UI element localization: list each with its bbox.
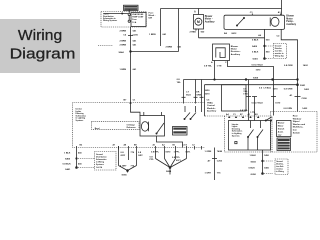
svg-text:1650: 1650 [205, 90, 211, 92]
pin B wire [195, 28, 265, 37]
svg-text:Reference: Reference [127, 127, 136, 129]
svg-text:Window: Window [293, 118, 302, 120]
svg-text:Switch: Switch [278, 127, 285, 130]
svg-text:G200: G200 [251, 174, 257, 176]
svg-text:0.8 YEL: 0.8 YEL [240, 110, 249, 112]
pump motor symbol [270, 17, 279, 26]
label blower motor auxiliary [205, 16, 215, 24]
module dashed box [73, 103, 205, 148]
svg-text:S304: S304 [251, 160, 257, 163]
wire: pump C2 to orange bus [281, 29, 297, 111]
svg-text:Rear: Rear [293, 116, 298, 118]
pin ticks C1 A1 [251, 14, 253, 16]
svg-text:Distribution: Distribution [96, 155, 107, 158]
svg-text:A7: A7 [113, 143, 116, 146]
svg-text:tion: tion [293, 129, 298, 132]
svg-text:2 BRN: 2 BRN [120, 30, 127, 32]
svg-text:Auxiliary: Auxiliary [205, 20, 215, 23]
svg-text:C6: C6 [207, 100, 211, 102]
connector C200 tick [128, 35, 133, 37]
svg-text:1 BLK: 1 BLK [250, 155, 257, 157]
svg-text:2 BRN: 2 BRN [120, 44, 127, 46]
svg-text:1070: 1070 [275, 102, 281, 104]
svg-text:0.8 ORN: 0.8 ORN [284, 89, 293, 91]
svg-text:A1: A1 [153, 143, 156, 146]
svg-text:776: 776 [131, 152, 135, 154]
label 0.8 ORN 1402 upper [284, 64, 308, 67]
svg-text:GRN: GRN [196, 94, 201, 96]
svg-text:450: 450 [78, 152, 82, 155]
blower motor aux M1 [194, 15, 204, 30]
relay/actuator box [140, 112, 165, 136]
pump switch [236, 17, 244, 26]
svg-text:Wiper/: Wiper/ [293, 121, 300, 123]
svg-text:DK: DK [196, 92, 200, 94]
svg-text:2 BRN: 2 BRN [120, 40, 127, 42]
svg-text:Cell 14: Cell 14 [96, 166, 103, 169]
svg-text:5 BLK: 5 BLK [252, 40, 259, 42]
resistor box [213, 44, 230, 61]
wire: bus B vertical [178, 9, 180, 52]
svg-text:1402: 1402 [303, 64, 309, 67]
svg-text:Auxiliary: Auxiliary [286, 23, 296, 26]
svg-text:900: 900 [266, 40, 270, 42]
svg-text:C203: C203 [217, 160, 223, 162]
label 1 BRN 641 [149, 33, 167, 36]
fuse block label [149, 13, 156, 20]
D2 rowbox1 [277, 121, 292, 137]
label 0.8 YEL 1 TN [204, 66, 222, 68]
connector C200 on orange bus [290, 94, 308, 100]
wire: top feed [161, 8, 282, 10]
svg-text:A2: A2 [162, 143, 165, 146]
svg-text:S460: S460 [65, 157, 71, 160]
svg-text:641: 641 [133, 43, 137, 46]
svg-text:C2: C2 [192, 144, 195, 146]
svg-text:PPL: PPL [150, 159, 155, 161]
svg-text:641: 641 [133, 29, 137, 32]
svg-text:Wiring Sys: Wiring Sys [275, 55, 284, 57]
svg-text:1 ORN: 1 ORN [205, 151, 212, 153]
labels DK GRN 1670 1650 [186, 90, 210, 96]
svg-text:S084: S084 [166, 170, 172, 173]
svg-text:850: 850 [266, 52, 270, 54]
svg-text:0.8 PPL: 0.8 PPL [172, 157, 181, 159]
svg-text:0.8 YEL: 0.8 YEL [204, 66, 213, 68]
D1 entry arrows [228, 116, 259, 118]
wire: 1 BLK 1450 down to grounds [262, 150, 273, 174]
module internal wire loop [157, 136, 183, 148]
label 5 BLK 900 [252, 40, 270, 42]
svg-text:0.8 LT BLU: 0.8 LT BLU [252, 65, 264, 67]
labels BLK 450 [63, 152, 83, 171]
svg-text:1 BLK: 1 BLK [64, 153, 71, 155]
wire into module from fuse [131, 103, 141, 117]
label 0.8 ORN 1402 lower [284, 107, 308, 110]
svg-text:C1 E: C1 E [183, 144, 188, 146]
svg-text:776: 776 [217, 172, 221, 174]
ground distribution ref box 1 [274, 44, 287, 59]
module bottom pins [77, 143, 202, 149]
svg-text:M: M [197, 20, 200, 24]
title text [10, 27, 76, 62]
svg-text:S341: S341 [300, 84, 306, 87]
svg-text:S309: S309 [253, 78, 259, 80]
svg-text:Systems: Systems [76, 119, 84, 122]
svg-text:Motor: Motor [278, 124, 284, 127]
svg-text:0.8 BLK: 0.8 BLK [63, 163, 72, 165]
svg-text:0.8 ORN: 0.8 ORN [284, 108, 293, 110]
svg-text:1402: 1402 [304, 88, 310, 91]
svg-text:5 BLK: 5 BLK [252, 52, 259, 54]
svg-text:4 GRY: 4 GRY [120, 165, 127, 168]
svg-text:C200: C200 [302, 98, 308, 100]
svg-text:641: 641 [133, 39, 137, 42]
svg-text:LT BLU: LT BLU [264, 87, 272, 89]
wire: resistor A (YEL) down [214, 64, 216, 80]
svg-text:641: 641 [163, 33, 167, 36]
wire: B2 ground (BLK 450) [76, 150, 95, 169]
svg-text:10 A: 10 A [132, 21, 137, 24]
fuse symbol [128, 10, 130, 23]
svg-text:1070: 1070 [256, 69, 262, 71]
svg-text:Auxiliary: Auxiliary [207, 110, 217, 113]
relay block box [222, 85, 247, 111]
module switches [184, 106, 196, 120]
wires into D1 from above [248, 80, 250, 121]
svg-text:Resistor -: Resistor - [231, 50, 241, 53]
wire: resistor C (LT BLU) [228, 64, 274, 116]
svg-text:C1: C1 [250, 12, 254, 14]
svg-text:A8: A8 [124, 143, 127, 146]
blower pump box [224, 15, 285, 29]
svg-text:Module -: Module - [207, 108, 216, 110]
ground G401 [253, 58, 273, 61]
D2 label [293, 116, 306, 135]
D1 pin labels [226, 113, 258, 116]
svg-text:0.8 ORN: 0.8 ORN [284, 65, 293, 67]
svg-text:8612: 8612 [232, 33, 238, 35]
module box left edge [204, 85, 206, 117]
svg-text:B8: B8 [134, 144, 137, 146]
pump label [286, 16, 296, 26]
D2 rowbox2 [277, 138, 291, 151]
svg-text:2 RED: 2 RED [190, 31, 197, 33]
svg-text:C: C [225, 62, 227, 64]
wire: S309 horizontal [184, 78, 298, 81]
junction S341 [297, 79, 306, 88]
svg-text:Wiring Systems: Wiring Systems [103, 19, 117, 22]
junction S400 [252, 45, 273, 48]
labels BLK 1450 [249, 154, 270, 176]
module note text [76, 108, 87, 123]
svg-text:A6: A6 [258, 34, 262, 37]
svg-text:1TN: 1TN [243, 93, 248, 95]
svg-text:Motor -: Motor - [205, 18, 213, 21]
svg-text:0.8: 0.8 [150, 156, 154, 158]
title panel [0, 19, 80, 73]
svg-text:900: 900 [201, 31, 205, 33]
svg-text:Blower: Blower [286, 16, 294, 18]
svg-text:iary: iary [278, 134, 282, 136]
label 0.8 LT BLU 1070 [252, 65, 264, 72]
svg-text:C200: C200 [133, 34, 139, 36]
connector ticks row C1 [246, 96, 276, 98]
svg-text:GRY: GRY [121, 155, 126, 157]
svg-text:1450: 1450 [264, 154, 270, 157]
svg-text:Switch: Switch [293, 131, 301, 134]
svg-text:Washer and: Washer and [293, 124, 306, 126]
label 2 RED 900 [190, 31, 238, 35]
svg-text:A7: A7 [208, 159, 212, 162]
svg-text:in Wiring: in Wiring [276, 171, 284, 173]
wires: PPL harness to S084 [156, 150, 187, 175]
ground distribution ref box 3 [275, 159, 288, 175]
svg-text:C1: C1 [233, 114, 236, 116]
D2 switch [265, 117, 271, 121]
svg-text:1 TN: 1 TN [217, 66, 222, 68]
svg-text:Auxiliary: Auxiliary [231, 53, 241, 56]
svg-text:1 BRN: 1 BRN [120, 69, 127, 71]
resistor pins [211, 61, 228, 64]
wire: feed into fuse [104, 13, 128, 14]
wire: pump ground [264, 29, 266, 58]
svg-text:S400: S400 [252, 45, 258, 48]
svg-text:Control: Control [207, 104, 215, 107]
svg-text:0.5: 0.5 [259, 87, 263, 89]
svg-text:B2: B2 [80, 144, 83, 146]
svg-text:U/H: U/H [149, 18, 153, 20]
junction S044 [130, 51, 132, 53]
wire from top to A1 [281, 0, 283, 15]
svg-text:G401: G401 [65, 168, 71, 171]
svg-text:S185: S185 [122, 174, 128, 176]
fuse block underhood dashed box [101, 12, 146, 28]
labels ORN/GRY right [205, 150, 223, 174]
svg-text:A: A [211, 61, 213, 64]
svg-text:YEL: YEL [177, 82, 182, 84]
svg-text:Blower: Blower [278, 122, 285, 124]
module label [207, 100, 218, 113]
svg-text:1450: 1450 [264, 167, 270, 170]
svg-text:1 BRN: 1 BRN [149, 34, 156, 36]
svg-text:Motor: Motor [286, 17, 292, 20]
labels GRY 776 [120, 152, 143, 167]
svg-text:C6: C6 [123, 34, 127, 36]
svg-text:Schematics: Schematics [96, 158, 107, 161]
svg-text:Wiring: Wiring [18, 27, 62, 44]
svg-text:B3: B3 [255, 114, 258, 116]
fuse F1 label box [124, 5, 139, 10]
svg-text:Systems: Systems [232, 134, 240, 137]
power distribution note [103, 14, 117, 23]
svg-text:6070: 6070 [166, 151, 172, 153]
dashed box D1 (aux switch) [205, 116, 272, 152]
svg-text:2 BRN: 2 BRN [166, 47, 173, 49]
label 5 BLK 850 [252, 52, 270, 54]
svg-text:Blower: Blower [205, 16, 213, 18]
wire: S044 to bus B [131, 51, 179, 53]
svg-text:LT: LT [186, 92, 189, 94]
svg-text:1670: 1670 [205, 93, 211, 95]
torque box [173, 127, 188, 136]
wire: fuse to module (BRN 641) [130, 27, 132, 103]
wires down to module switches [183, 80, 185, 104]
svg-text:1402: 1402 [302, 107, 308, 110]
svg-text:1 TN: 1 TN [250, 112, 255, 114]
fuse detail box [131, 13, 146, 27]
svg-text:Bezel: Bezel [95, 128, 100, 130]
svg-text:G401: G401 [253, 58, 259, 61]
svg-text:BLU: BLU [186, 94, 191, 96]
resistor label [231, 46, 241, 56]
svg-text:0.8: 0.8 [177, 79, 181, 81]
svg-text:Motor: Motor [231, 48, 237, 51]
svg-text:6071: 6071 [186, 151, 192, 153]
svg-text:C1: C1 [133, 99, 137, 101]
svg-text:Pump -: Pump - [286, 21, 294, 23]
pin A [194, 9, 199, 15]
svg-text:1070: 1070 [273, 88, 279, 90]
svg-text:B4: B4 [224, 32, 228, 35]
svg-text:0.5 LT BLU: 0.5 LT BLU [252, 102, 264, 104]
svg-text:B7: B7 [124, 99, 128, 101]
5V reference dashed pointer box [92, 121, 140, 130]
svg-text:0.8 PPL: 0.8 PPL [151, 151, 160, 153]
svg-text:B7: B7 [240, 114, 243, 116]
svg-text:S044: S044 [119, 51, 125, 54]
svg-text:740B: 740B [217, 150, 223, 153]
svg-text:C2: C2 [277, 35, 281, 37]
pins A6 C2 [258, 34, 280, 37]
svg-text:450: 450 [78, 162, 82, 165]
svg-text:HVAC/ECAS: HVAC/ECAS [132, 13, 144, 16]
svg-text:A4: A4 [226, 113, 229, 116]
svg-text:Auxil-: Auxil- [278, 130, 284, 133]
wire: module feed horizontal [205, 84, 298, 86]
svg-text:Systems: Systems [96, 163, 104, 166]
svg-text:GRY: GRY [138, 155, 143, 157]
svg-text:Multifunc-: Multifunc- [293, 126, 304, 129]
svg-text:5 BLK: 5 BLK [249, 168, 256, 170]
entry arrow at module boundary [129, 102, 131, 104]
wire: GRY 776 right [212, 148, 217, 181]
labels PPL [150, 151, 192, 162]
connector tick row [182, 96, 204, 98]
dashed box D2 (rear wiper/multifunction) [271, 112, 318, 153]
svg-text:A: A [194, 11, 196, 14]
labels YEL / LT BLU column [240, 87, 310, 114]
fuse detail text [132, 13, 144, 24]
label 0.8 YEL left [177, 79, 182, 84]
label 2 BRN 641 [166, 46, 182, 49]
D1 switch box [229, 121, 271, 151]
dashed reference arrow [98, 45, 113, 47]
pins C1 A1 [250, 11, 282, 14]
svg-text:6071: 6071 [176, 160, 182, 162]
svg-text:Diagram: Diagram [10, 46, 76, 63]
svg-text:1 GRY: 1 GRY [205, 172, 212, 174]
svg-text:HVAC: HVAC [207, 101, 213, 104]
svg-text:641: 641 [133, 68, 137, 71]
ground distribution ref box 2 [95, 152, 117, 171]
svg-text:A1: A1 [290, 94, 294, 97]
svg-text:1 PPL: 1 PPL [174, 151, 181, 153]
wire labels BRN 641 [119, 29, 139, 101]
wire: bus A vertical [160, 9, 162, 47]
wires: GRY 776 group to S185 [119, 146, 137, 176]
